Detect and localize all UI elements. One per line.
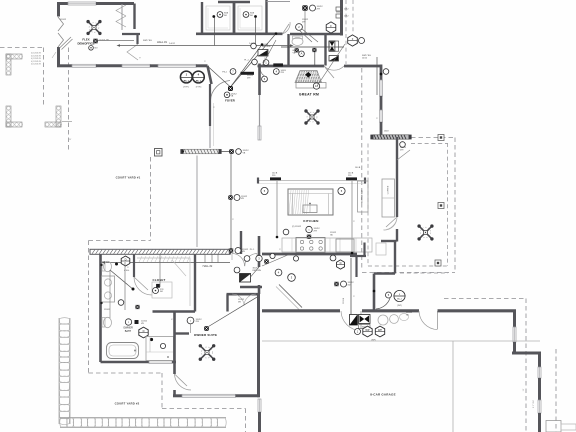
soffit line: kitchen north 2 xyxy=(258,183,366,185)
wall: powder west xyxy=(287,34,289,66)
svg-text:COURT YARD #1: COURT YARD #1 xyxy=(116,175,141,179)
wall: flex east closet thin xyxy=(121,4,123,30)
wall: hall south seg2 xyxy=(96,64,122,67)
svg-text:BOTTLE BAR: BOTTLE BAR xyxy=(361,190,364,203)
symbol circle: ps1 xyxy=(230,69,236,75)
stone paver strip south horizontal xyxy=(60,417,226,419)
symbol: flex outlet circle xyxy=(89,46,94,51)
window band: nook north xyxy=(373,135,409,139)
svg-text:SW17 B/L: SW17 B/L xyxy=(143,40,153,42)
wire: entry diag xyxy=(302,29,318,42)
svg-text:NO: NO xyxy=(160,291,163,293)
symbol: closet fsq xyxy=(156,284,160,288)
svg-text:1-1/2x4-7/8: 1-1/2x4-7/8 xyxy=(99,40,110,42)
wall: closet block east xyxy=(265,0,267,34)
symbol: return grille 2 xyxy=(258,50,268,57)
symbol: site rect a xyxy=(336,7,342,11)
wall: garage east upper xyxy=(513,311,516,327)
symbol: keypad halfsq xyxy=(350,315,358,326)
wall: great rm east upper xyxy=(380,65,383,81)
window: flex north xyxy=(68,2,96,5)
door: breezeway diagonal xyxy=(279,285,302,308)
symbol: foyer outlet xyxy=(224,92,230,98)
symbol circle: bath mid xyxy=(125,319,131,325)
wall: foyer/greatrm pier xyxy=(258,64,261,96)
symbol: kitchen floor box xyxy=(307,235,311,239)
svg-text:14/12: 14/12 xyxy=(362,57,368,59)
svg-text:HALL #1: HALL #1 xyxy=(157,40,168,44)
symbol circle: entry 2 xyxy=(296,24,303,31)
symbol: floor box front door xyxy=(229,149,234,154)
svg-text:DEN/OFFICE: DEN/OFFICE xyxy=(78,41,95,45)
window: hall south 2 xyxy=(122,64,150,67)
wall: bedroom north stub xyxy=(175,332,190,334)
door arc: coffee area xyxy=(383,217,397,230)
dashed courtyard1 bottom horizontal xyxy=(89,240,151,242)
wire: gr south diag xyxy=(262,254,290,266)
svg-text:NO: NO xyxy=(95,48,98,50)
symbol: kit bar light R xyxy=(346,177,357,180)
fixture: powder toilet xyxy=(292,38,303,46)
svg-text:HALL #2: HALL #2 xyxy=(203,265,213,268)
shelf: closet outline xyxy=(137,258,190,306)
counter: kitchen SE xyxy=(336,239,354,252)
svg-text:8-CAR GARAGE: 8-CAR GARAGE xyxy=(370,392,396,396)
fixture: bath toilet 1 xyxy=(104,261,112,271)
svg-text:4) 12345 W: 4) 12345 W xyxy=(31,61,41,63)
dashed entry vertical xyxy=(345,0,347,64)
symbol: closet R switch dot xyxy=(254,15,257,18)
wire: gr sw2 curve xyxy=(260,68,264,77)
symbol: return grille xyxy=(240,274,251,283)
dashed overhang line left vertical xyxy=(43,48,45,107)
wire: hall2 drop1 xyxy=(204,254,206,263)
wall: bedroom east xyxy=(257,294,260,397)
svg-text:(TYP.): (TYP.) xyxy=(183,86,189,88)
door: garage arc 1 xyxy=(341,311,361,331)
ceiling fan: flex room xyxy=(89,23,99,33)
wire: bath drop2 xyxy=(109,270,111,318)
wall: great rm north 2 xyxy=(344,65,382,68)
svg-text:(2) 120/12: (2) 120/12 xyxy=(292,226,302,228)
svg-text:9-4/12: 9-4/12 xyxy=(169,43,176,45)
wall: bath south e xyxy=(172,361,176,364)
wall: closet block north R thin xyxy=(267,1,291,3)
symbol circle: mid2 xyxy=(235,248,241,254)
wall: foyer west lower light xyxy=(209,126,211,148)
ceiling fan: owner suite xyxy=(202,347,213,358)
wire: gr wall wire xyxy=(262,40,276,66)
wall: powder east xyxy=(324,34,326,66)
wire: diag to grille xyxy=(251,267,260,277)
symbol: ks sq xyxy=(264,259,268,263)
wire: powder drop xyxy=(314,52,316,66)
wire: laundry drop xyxy=(304,11,306,34)
dot: bath wall b xyxy=(100,302,102,304)
window: hall south 3 xyxy=(158,64,196,67)
wire: band to box xyxy=(221,151,231,153)
symbol: mud fsq xyxy=(334,282,338,286)
wall: closet west xyxy=(133,255,135,278)
arrow: hall1 wire right xyxy=(290,44,294,46)
wall: nook east lower xyxy=(396,229,398,242)
post: patio 3 xyxy=(435,260,441,266)
svg-text:4) 12345 W: 4) 12345 W xyxy=(31,64,41,66)
shelf outline: closet R xyxy=(238,6,262,30)
window: great rm east 2 xyxy=(380,110,383,122)
symbol: foyer pendant pair xyxy=(180,71,192,83)
bench: mud xyxy=(376,243,386,255)
wall: mud north xyxy=(381,240,397,242)
dashed patio south horizontal xyxy=(362,272,455,274)
svg-text:GREAT RM: GREAT RM xyxy=(299,92,319,96)
window: great rm east 1 xyxy=(380,80,383,96)
jamb: foyer inner light xyxy=(213,103,215,146)
wall: foyer west xyxy=(209,84,211,126)
symbol: garage bowtie xyxy=(359,315,371,324)
wall: powder north xyxy=(290,33,341,36)
window band: foyer front xyxy=(183,149,219,153)
wall: closet divider xyxy=(233,3,236,34)
wire: foyer leader 2 xyxy=(231,45,263,88)
wall: closet block north L xyxy=(218,1,250,3)
cabinet: coffee xyxy=(382,179,395,217)
door: closet arc xyxy=(134,277,152,295)
svg-text:140 B: 140 B xyxy=(355,167,361,169)
wall: hall south seg3 xyxy=(150,64,158,67)
wire: closet L switch drop xyxy=(214,18,216,46)
wire: laundry east xyxy=(336,11,342,13)
fixture: bath toilet 2 xyxy=(104,317,112,327)
symbol: bath gfi sq xyxy=(135,320,139,324)
wire: window drop xyxy=(196,156,198,248)
dashed laundry vertical xyxy=(352,0,354,33)
wire: bedroom to wall xyxy=(209,297,259,327)
dot: wall pt1 xyxy=(261,43,264,46)
svg-text:CLOSET: CLOSET xyxy=(153,278,166,282)
pilaster tie line xyxy=(62,121,72,123)
symbol hexagon: garage h2 xyxy=(375,326,384,337)
dashed patio east vertical xyxy=(454,138,456,273)
symbol: closet R smoke det xyxy=(243,12,249,18)
label: under bowtie xyxy=(359,325,371,329)
wall: mud jog v2 xyxy=(363,243,365,257)
dashed patio north horizontal xyxy=(411,137,455,139)
svg-text:KITCHEN: KITCHEN xyxy=(303,219,319,223)
counter: kitchen south band xyxy=(282,238,372,252)
symbol hexagon: garage h1 xyxy=(363,326,372,337)
door: flex closet bifold chevrons xyxy=(116,5,126,16)
wall: mud jog h xyxy=(350,255,366,257)
wall: foyer/greatrm pier light xyxy=(259,95,261,126)
wire: bath diag xyxy=(110,270,134,290)
arrow: hall2 wire left xyxy=(102,261,106,263)
symbol circle: ks3 xyxy=(270,253,275,258)
symbol: powder fsq a xyxy=(295,48,299,52)
wall: great rm north xyxy=(258,65,325,68)
wire: garage curve xyxy=(376,298,390,309)
door: garage arc 2 xyxy=(419,311,438,330)
dot: band L xyxy=(182,150,184,152)
symbol circle: garage MC xyxy=(394,290,405,301)
svg-text:4) 12345 W: 4) 12345 W xyxy=(31,55,41,57)
wall: flex room north e xyxy=(96,2,134,5)
wall: vestibule north xyxy=(227,293,260,296)
dashed courtyard2 lower horizontal xyxy=(162,408,246,410)
dot: wall pt2 xyxy=(275,32,278,35)
wall: rv east mid xyxy=(538,378,541,400)
wall: kitchen south xyxy=(262,253,357,256)
svg-text:FOYER: FOYER xyxy=(225,99,235,103)
svg-text:BATH: BATH xyxy=(125,330,132,333)
dashed garage overhang top horizontal xyxy=(444,298,526,300)
wall: rv east lower xyxy=(538,413,541,432)
soffit end blocks xyxy=(257,178,259,184)
symbol: foyer niche bar xyxy=(241,72,255,75)
wall: nook east xyxy=(396,137,398,217)
fixture: util circles xyxy=(378,315,388,325)
door: bedroom arc xyxy=(175,374,192,390)
symbol circle: hall2 ret label xyxy=(234,267,240,273)
symbol: site rect b xyxy=(336,14,342,18)
symbol circle: ks1 xyxy=(256,255,262,261)
wall: bath west xyxy=(99,255,102,363)
symbol circle: garage 5 xyxy=(386,292,392,298)
wall: hall2 north end xyxy=(228,249,232,254)
wire: kit drop R xyxy=(351,181,353,253)
wall: mud south xyxy=(374,272,395,274)
dashed courtyard2 east vertical xyxy=(245,409,247,432)
wire: garage feed xyxy=(350,258,352,314)
door: entry swing arc xyxy=(211,81,231,101)
corner detail: SE rects xyxy=(546,421,561,432)
svg-text:D: D xyxy=(125,257,127,261)
door: nook door arc xyxy=(384,217,397,230)
svg-text:(WP): (WP) xyxy=(371,340,376,342)
symbol circle: nook xyxy=(400,142,406,148)
wall: bedroom south xyxy=(173,394,182,397)
symbol: powder vertical bowtie xyxy=(329,41,335,51)
symbol hexagon: mud hex xyxy=(337,260,345,269)
symbol dot: bath sw2 xyxy=(132,288,135,291)
symbol circle: gre 1 xyxy=(383,69,389,75)
wire: gr ceiling leader xyxy=(317,44,345,86)
wall: owner wing north (hatched) xyxy=(90,249,230,254)
dot: kitchen b xyxy=(351,252,354,255)
symbol circle: mud xyxy=(341,281,347,287)
dashed courtyard2 bottom horizontal xyxy=(89,372,163,374)
symbol circle: kitchen island xyxy=(306,226,312,232)
wall: hall south upper xyxy=(240,286,262,288)
ceiling fan: great room xyxy=(307,112,317,122)
symbol circle: shower light xyxy=(160,343,165,348)
svg-text:A: A xyxy=(301,52,303,56)
symbol circle: hall2 b xyxy=(288,274,296,282)
wire: powder cross xyxy=(281,46,344,48)
svg-text:8'-2" CLR: 8'-2" CLR xyxy=(533,399,535,408)
dashed courtyard2 west vertical xyxy=(88,241,90,374)
symbol: kit bar light L xyxy=(270,177,281,180)
symbol circle: gr 4 xyxy=(273,69,279,75)
island: kitchen xyxy=(288,189,333,215)
symbol hexagon: gr fan xyxy=(348,35,358,46)
window: bath south xyxy=(149,361,172,364)
stone pilaster mid-left B xyxy=(56,106,61,127)
door: NW corner diagonal door xyxy=(60,37,72,48)
wall: flex closet bottom xyxy=(122,33,140,35)
wall: garage east lower xyxy=(513,342,516,355)
wire: closet R switch drop xyxy=(255,18,257,46)
wall: great rm east lower xyxy=(380,122,383,138)
dashed garage overhang east vertical xyxy=(525,299,527,432)
wire: flex fan feed xyxy=(98,39,134,41)
wall: flex east xyxy=(133,4,135,30)
dot: bath wall a xyxy=(100,264,102,266)
window: garage east xyxy=(513,327,516,342)
symbol dot: bath sw3 xyxy=(150,338,153,341)
wire: foyer drop xyxy=(230,154,232,250)
wall: courtyard wall lower xyxy=(258,412,261,432)
fixture: shower xyxy=(146,337,174,361)
wall: flex room north w xyxy=(57,2,68,5)
svg-text:WP: WP xyxy=(378,328,382,332)
post: patio 2 xyxy=(438,203,444,209)
wall: closet east xyxy=(194,255,196,312)
wire: closet drop xyxy=(159,254,161,287)
svg-text:D: D xyxy=(340,261,342,265)
wall: garage step south xyxy=(512,352,541,355)
svg-text:RETURN: RETURN xyxy=(253,270,262,272)
svg-text:MC-2: MC-2 xyxy=(397,298,402,300)
wall: bath south xyxy=(101,361,150,364)
symbol: powder chase grille xyxy=(329,56,339,62)
wall: hall1 north (closet south) xyxy=(196,32,283,35)
wire: hall2 long xyxy=(105,262,230,264)
wall: rv east upper xyxy=(538,353,541,367)
window: bedroom south xyxy=(182,394,236,397)
symbol circle: gr sw2 xyxy=(262,76,268,82)
shelf outline: closet L xyxy=(206,6,230,30)
symbol: bedroom sq xyxy=(204,326,209,331)
wall: vestibule east xyxy=(258,285,261,294)
svg-text:(TYP.): (TYP.) xyxy=(196,86,202,88)
soffit line: kitchen north xyxy=(258,180,366,182)
wall: flex west upper xyxy=(57,2,60,17)
symbol: courtyard Jbox xyxy=(155,149,163,157)
symbol: laundry exhaust xyxy=(302,5,307,10)
wall: mud west jog v xyxy=(355,255,357,277)
svg-text:PL-1: PL-1 xyxy=(250,249,255,251)
svg-text:RETURN: RETURN xyxy=(262,46,271,48)
symbol circle: gr pl1 xyxy=(252,59,258,65)
arrow: hall1 wire left xyxy=(117,44,121,46)
wall: bedroom south e xyxy=(236,394,260,397)
wall: mud-garage link xyxy=(373,274,376,311)
window: rv east 2 xyxy=(538,400,541,413)
dot: kitchen a xyxy=(276,236,279,239)
wire: foyer leader 1 xyxy=(231,34,277,88)
svg-text:120/12: 120/12 xyxy=(60,19,67,21)
wall: garage north e xyxy=(438,309,517,312)
symbol circle: garage 1 xyxy=(355,329,361,335)
symbol circle: kit c4 xyxy=(283,229,289,235)
window: great rm west low xyxy=(258,126,261,140)
wall: garage north mid xyxy=(362,309,419,312)
ceiling fan: patio xyxy=(420,227,430,237)
symbol circle: return2 label xyxy=(251,43,257,49)
stone paver strip west vertical xyxy=(58,318,60,424)
legend: NW leader xyxy=(52,52,56,58)
svg-text:4) 12345 W: 4) 12345 W xyxy=(31,53,41,55)
wire: nook wire xyxy=(397,150,410,160)
symbol: closet L switch dot xyxy=(212,15,215,18)
symbol: wc exhaust fsq xyxy=(135,305,139,309)
wall: flex west lower xyxy=(57,47,60,67)
svg-text:WP: WP xyxy=(365,328,369,332)
wall: bedroom west s xyxy=(173,390,176,397)
dashed patio inner east vertical xyxy=(447,143,449,266)
wall: hall south with windows (flex south) xyxy=(57,64,72,67)
dashed courtyard1 inner vertical xyxy=(150,157,152,241)
svg-text:D: D xyxy=(143,329,145,333)
symbol: flex junction sq xyxy=(93,39,98,44)
fixture: bath vanity xyxy=(102,276,115,302)
door: flex west french door marks xyxy=(58,17,64,31)
wire: hall2 drop3 xyxy=(217,254,219,263)
symbol circle: kit c5 xyxy=(293,256,298,261)
svg-text:(WP): (WP) xyxy=(397,305,402,307)
svg-text:COURT YARD #2: COURT YARD #2 xyxy=(115,401,140,405)
svg-text:OWNER SUITE: OWNER SUITE xyxy=(194,333,217,337)
svg-text:COFFEE: COFFEE xyxy=(388,185,390,194)
slab line: rv bay xyxy=(452,341,454,432)
dashed patio inner north horizontal xyxy=(411,143,448,145)
door: great rm patio door arc xyxy=(324,66,344,70)
post: patio 1 xyxy=(438,135,444,141)
cabinet: bottle bar xyxy=(358,181,369,212)
wire: gr east inner xyxy=(376,57,378,95)
wire: bed drop xyxy=(190,324,192,333)
wire: foyer leader 3 xyxy=(208,67,231,88)
svg-text:NO: NO xyxy=(250,15,253,17)
fixture: bathtub xyxy=(107,343,139,359)
wire: bath vert xyxy=(124,262,126,310)
symbol circle: gr sw1 xyxy=(263,60,269,66)
dot: mud a xyxy=(373,290,376,293)
wall: greatrm-hall pier xyxy=(258,236,261,267)
symbol circle: closet xyxy=(153,288,159,294)
dashed courtyard2 step vertical xyxy=(161,373,163,409)
dashed rv apron vertical xyxy=(555,349,557,432)
wire: hall2 drop2 xyxy=(211,254,213,263)
symbol hexagon: entry fan sw xyxy=(326,22,336,33)
wall: closet block west xyxy=(201,2,203,34)
svg-text:WL-1: WL-1 xyxy=(184,80,190,82)
door: flex-hall chevron xyxy=(127,44,138,60)
window: hall south 1 xyxy=(72,64,96,67)
window: rv east xyxy=(538,367,541,378)
wall: hall south seg4 xyxy=(196,64,208,67)
symbol: gr bar light xyxy=(273,63,283,66)
wall: flex-hall stub xyxy=(136,33,138,44)
symbol: powder fsq b xyxy=(312,48,316,52)
stone pilaster mid-left A xyxy=(6,106,11,127)
slab line: garage xyxy=(262,340,540,342)
symbol dot: bath sw xyxy=(115,263,118,266)
symbol circle: bedroom xyxy=(187,317,194,324)
svg-text:4) 12345 W: 4) 12345 W xyxy=(31,58,41,60)
wall: laundry west xyxy=(340,0,343,36)
